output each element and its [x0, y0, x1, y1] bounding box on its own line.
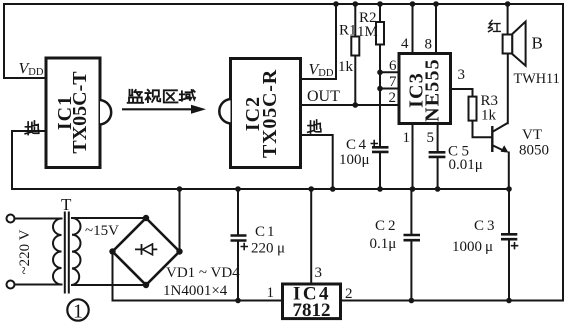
svg-text:2: 2	[389, 90, 397, 106]
svg-text:0.1μ: 0.1μ	[370, 236, 397, 252]
resistor R2	[357, 10, 384, 45]
label ground IC2 地	[308, 120, 321, 133]
svg-text:100μ: 100μ	[339, 152, 370, 168]
wire IC3 pin5 to C5	[437, 122, 439, 189]
junction dots bottom rail	[235, 298, 241, 304]
svg-text:4: 4	[401, 36, 409, 52]
secondary winding	[72, 218, 81, 285]
svg-text:1N4001×4: 1N4001×4	[163, 283, 228, 299]
svg-text:7: 7	[389, 74, 397, 90]
IC2 TX05C-R box	[219, 59, 300, 168]
svg-text:1M: 1M	[357, 24, 378, 40]
svg-text:7812: 7812	[293, 300, 331, 321]
transformer T	[7, 195, 81, 294]
wire left border to Vdd IC1	[4, 4, 45, 78]
primary terminal top	[7, 215, 15, 223]
junction dots top rail	[333, 1, 510, 7]
svg-text:8: 8	[425, 37, 433, 53]
svg-text:C2: C2	[375, 218, 399, 234]
svg-text:NE555: NE555	[421, 58, 443, 122]
capacitor C3	[452, 218, 518, 255]
bridge rectifier VD1-VD4	[113, 218, 241, 299]
diode inside	[135, 248, 157, 250]
junction dot OUT R1	[353, 102, 359, 108]
svg-text:0.01μ: 0.01μ	[449, 157, 483, 173]
svg-text:8050: 8050	[519, 143, 549, 159]
svg-text:2: 2	[345, 286, 353, 302]
svg-text:1k: 1k	[481, 108, 497, 124]
wire IC1 ground to gnd rail	[12, 131, 45, 189]
arrow monitor direction	[122, 105, 206, 114]
svg-text:220μ: 220μ	[251, 241, 285, 257]
svg-text:6: 6	[389, 58, 397, 74]
IC4 7812 box	[283, 284, 341, 322]
wire C2 branch	[410, 189, 412, 301]
wire top +12V rail	[4, 3, 563, 5]
IC3 NE555 box	[399, 54, 451, 124]
junction dots pins 6 7	[377, 70, 383, 76]
wire gnd rail	[12, 188, 509, 190]
primary terminal bottom	[7, 281, 15, 289]
wire R2 leads down to C4	[379, 4, 381, 146]
svg-text:TX05C-R: TX05C-R	[259, 69, 281, 158]
wire bridge minus up to gnd rail	[179, 189, 181, 252]
svg-text:3: 3	[315, 265, 323, 281]
svg-text:VT: VT	[522, 127, 542, 143]
label ground IC1 地	[25, 121, 39, 135]
svg-text:B: B	[532, 34, 543, 53]
wire pin3 to R3	[450, 89, 473, 97]
wire speaker bottom to collector	[507, 54, 509, 124]
primary winding	[53, 219, 62, 285]
svg-text:R3: R3	[481, 93, 499, 109]
label monitor area 监视区域	[128, 90, 143, 103]
wire IC3 pin8	[435, 4, 437, 53]
wire right border	[562, 4, 564, 301]
wire primary bottom	[15, 284, 62, 286]
junction dots gnd rail	[177, 186, 512, 192]
capacitor C2	[370, 218, 421, 252]
svg-text:~220 V: ~220 V	[17, 229, 33, 274]
wire emitter down to rail	[508, 153, 510, 190]
wire pin7 stub	[380, 88, 400, 90]
capacitor C1	[231, 224, 286, 257]
wire C3 branch	[508, 189, 510, 301]
label circled 1	[67, 299, 88, 322]
svg-text:1: 1	[73, 301, 83, 323]
svg-text:C3: C3	[474, 218, 498, 234]
capacitor C5	[429, 144, 483, 174]
svg-text:~15V: ~15V	[85, 223, 119, 239]
svg-text:5: 5	[427, 130, 435, 146]
wire OUT line to pin2	[301, 104, 401, 106]
wire bridge plus to IC4 pin1	[113, 252, 284, 301]
wire bottom +12V from IC4 pin2	[341, 300, 564, 302]
wire primary top	[15, 218, 62, 220]
speaker B TWH11	[503, 22, 560, 88]
wire secondary top	[72, 217, 146, 219]
svg-text:VD1 ~ VD4: VD1 ~ VD4	[166, 265, 240, 281]
wire C1 branch	[237, 189, 239, 301]
svg-text:C4: C4	[346, 137, 369, 153]
svg-text:3: 3	[458, 67, 466, 83]
wire R3 to base	[473, 121, 492, 138]
IC1 TX05C-T box	[46, 58, 111, 168]
svg-text:OUT: OUT	[307, 88, 340, 105]
wire pin6 stub	[380, 71, 400, 73]
svg-text:TWH11: TWH11	[514, 71, 560, 87]
wire R1 leads	[354, 4, 356, 105]
svg-text:1: 1	[403, 130, 411, 146]
svg-text:1k: 1k	[338, 59, 354, 75]
wire secondary bottom	[72, 284, 146, 286]
svg-text:1000μ: 1000μ	[452, 239, 493, 255]
capacitor C4	[339, 137, 389, 168]
wire IC2 Vdd up to top rail	[301, 4, 337, 79]
wire IC2 ground down to rail	[301, 135, 333, 189]
wire IC3 pin1 to rail	[412, 122, 414, 189]
wire IC3 pin4	[412, 4, 414, 53]
svg-text:C1: C1	[255, 224, 277, 240]
svg-text:TX05C-T: TX05C-T	[69, 71, 91, 154]
wire IC4 pin3 up to gnd rail	[310, 189, 312, 283]
label red wire 红	[489, 20, 501, 31]
transistor VT 8050	[492, 123, 549, 159]
wire C4 bottom to rail	[379, 153, 381, 189]
resistor R3	[469, 93, 499, 124]
svg-text:1: 1	[267, 285, 275, 301]
wire speaker top	[507, 4, 509, 35]
svg-text:R1: R1	[339, 23, 357, 39]
junction dots bridge corners	[143, 215, 149, 221]
core	[65, 212, 69, 294]
resistor R1	[338, 23, 359, 76]
svg-text:T: T	[61, 195, 72, 214]
